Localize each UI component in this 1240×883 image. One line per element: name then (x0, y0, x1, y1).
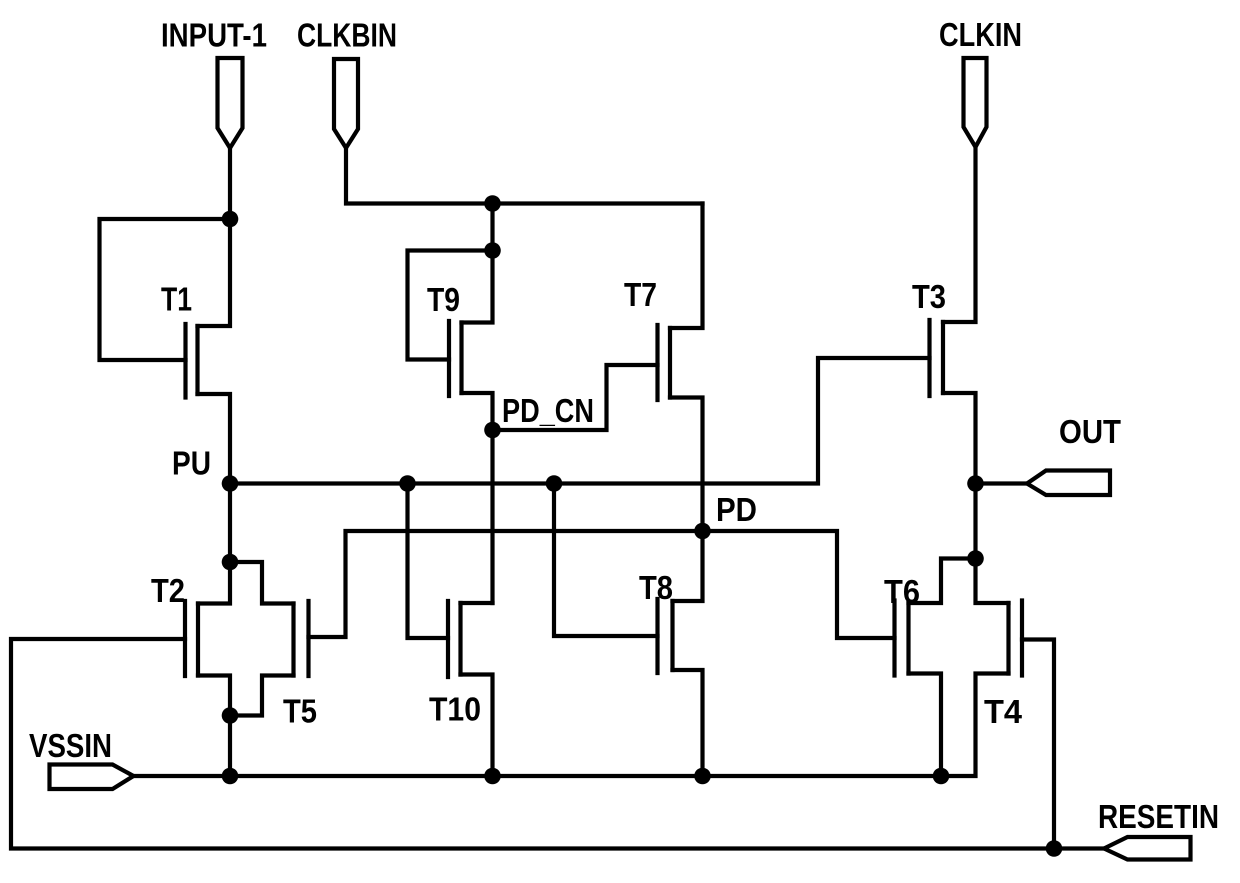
wire T9 gate feedback loop (408, 251, 493, 360)
junction dot T9 drain node (484, 242, 501, 259)
svg-text:OUT: OUT (1059, 413, 1121, 450)
terminal pin RESETIN (1104, 837, 1191, 860)
wire OUT node to OUT pin (976, 481, 1028, 485)
wire PU row to T10 gate (408, 484, 449, 639)
terminal pin VSSIN (50, 765, 134, 790)
junction dot T2/T5 drain node (222, 554, 239, 571)
svg-text:T4: T4 (984, 693, 1023, 730)
transistor T5 (230, 562, 309, 716)
svg-text:T3: T3 (912, 278, 946, 315)
wire CLKBIN rail to T9 drain node (490, 204, 494, 251)
junction dot node PD_CN (484, 422, 501, 439)
terminal pin CLKIN (964, 58, 987, 147)
wire VSS rail (134, 774, 941, 778)
junction dot RESETIN row T4 gate (1046, 840, 1063, 857)
svg-text:RESETIN: RESETIN (1098, 798, 1219, 835)
junction dot VSS rail T2/T5 (222, 768, 239, 785)
terminal pin CLKBIN (334, 59, 358, 148)
wire OUT node down to T6/T4 drain node (973, 484, 977, 559)
wire node PD_CN down to T10 drain (490, 430, 494, 603)
svg-text:CLKIN: CLKIN (939, 16, 1022, 53)
junction dot T6/T4 drain node (967, 550, 984, 567)
svg-text:PU: PU (172, 445, 211, 482)
junction dot node PU (222, 475, 239, 492)
transistor T7 (658, 204, 703, 532)
junction dot node OUT (967, 475, 984, 492)
wire node PD_CN to T7 gate (493, 365, 658, 430)
svg-text:T5: T5 (283, 693, 317, 730)
svg-text:INPUT-1: INPUT-1 (161, 17, 267, 54)
transistor T8 (658, 531, 703, 776)
wire RESETIN net with T2 gate (11, 639, 1104, 849)
svg-text:PD: PD (716, 491, 757, 528)
junction dot VSS rail T8 (694, 768, 711, 785)
svg-text:T7: T7 (624, 276, 657, 313)
wire T2/T5 source node to VSS rail (228, 716, 232, 777)
wire PU row and T3 gate (230, 358, 930, 484)
terminal pin INPUT-1 (218, 58, 243, 148)
transistor T9 (449, 251, 493, 431)
junction dot VSS rail T6/T4 (933, 768, 950, 785)
wire T1 gate feedback loop (100, 219, 231, 360)
svg-text:T9: T9 (427, 281, 460, 318)
wire PD row with T5 gate and T6 gate (309, 531, 895, 638)
terminal pin OUT (1027, 471, 1110, 496)
junction dot input node (222, 211, 239, 228)
svg-text:T2: T2 (151, 572, 185, 609)
wire INPUT-1 pin to input node (228, 148, 232, 219)
svg-text:VSSIN: VSSIN (29, 727, 112, 764)
svg-text:PD_CN: PD_CN (502, 392, 594, 429)
junction dot PU row T8 gate (546, 475, 563, 492)
transistor T4 (941, 559, 1022, 777)
junction dot PU row T10 gate (399, 475, 416, 492)
transistor T2 (185, 562, 230, 716)
wire PU row to T8 gate (554, 484, 658, 637)
svg-text:T10: T10 (429, 691, 481, 728)
transistor T10 (448, 601, 493, 776)
svg-text:T1: T1 (161, 281, 192, 318)
junction dot VSS rail T10 (484, 768, 501, 785)
svg-text:CLKBIN: CLKBIN (297, 17, 397, 54)
transistor T6 (895, 559, 976, 777)
transistor T3 (930, 147, 976, 484)
junction dot CLKBIN rail (484, 195, 501, 212)
wire PU node down to T2/T5 drain node (228, 484, 232, 563)
wire CLKBIN net top rail (346, 148, 703, 204)
wire T4 gate to RESETIN row (1022, 640, 1054, 849)
junction dot T2/T5 source node (222, 707, 239, 724)
transistor T1 (186, 219, 231, 484)
junction dot node PD (694, 523, 711, 540)
